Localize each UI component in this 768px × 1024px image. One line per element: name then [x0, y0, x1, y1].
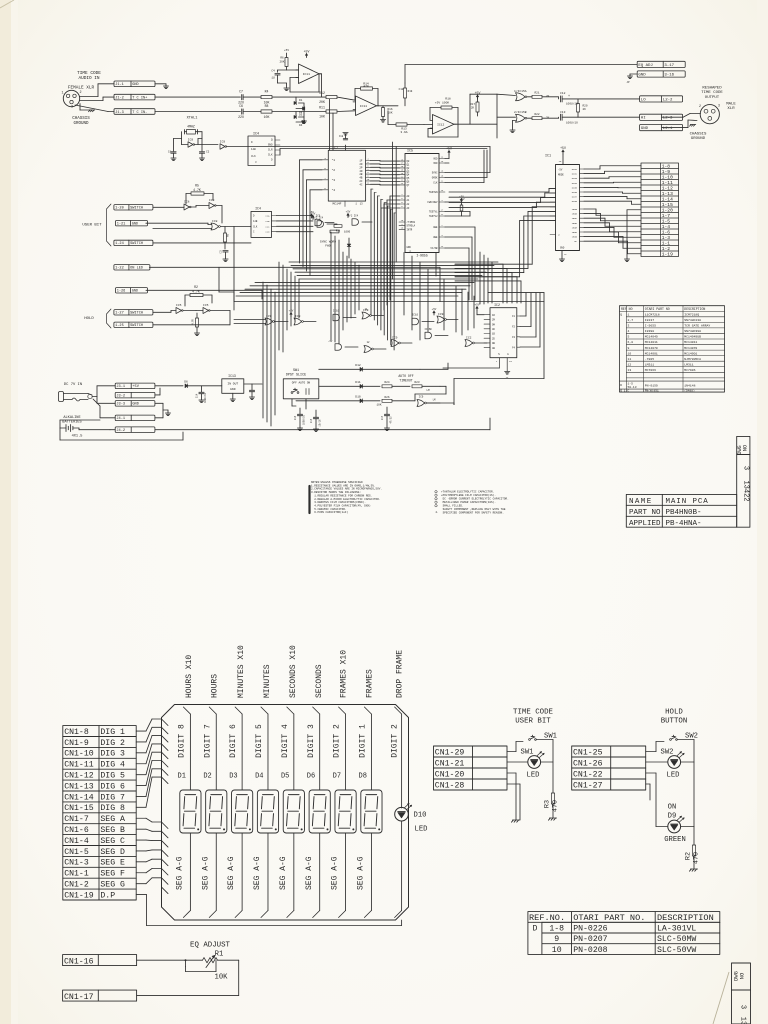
svg-text:1/2 IC4: 1/2 IC4	[348, 215, 359, 218]
diode sync word	[347, 238, 351, 258]
capacitor C1	[168, 151, 176, 161]
svg-text:IC5: IC5	[203, 304, 209, 307]
svg-text:10: 10	[628, 351, 632, 355]
svg-text:SWITCH: SWITCH	[130, 242, 143, 246]
svg-text:LED: LED	[667, 772, 680, 780]
connector female XLR J-IN	[61, 90, 81, 109]
label pin 1-13	[662, 191, 673, 197]
svg-text:TESTV2: TESTV2	[429, 215, 438, 218]
svg-text:+5V: +5V	[560, 146, 566, 150]
label SEG A-G col1	[176, 856, 185, 890]
svg-text:-7805: -7805	[645, 357, 654, 361]
svg-text:C10: C10	[399, 88, 404, 91]
svg-text:IC4: IC4	[255, 207, 261, 211]
inverter IC5 hold B	[196, 304, 230, 313]
column label HOURS X10	[185, 655, 194, 698]
label pin 1-4	[662, 224, 671, 230]
svg-text:GND: GND	[132, 83, 138, 87]
wire bus IC4 outputs	[277, 216, 314, 232]
svg-text:TIMEOUT: TIMEOUT	[399, 378, 412, 382]
diode clamp D3 D4	[294, 112, 305, 128]
component table row 13	[628, 368, 696, 372]
svg-text:NO: NO	[740, 973, 746, 979]
column label HOURS	[211, 674, 220, 698]
svg-text:CN1-11: CN1-11	[64, 761, 94, 770]
svg-text:D1: D1	[299, 99, 303, 102]
svg-text:CLK: CLK	[268, 154, 273, 157]
svg-text:XLR: XLR	[727, 107, 735, 111]
svg-text:GROUND: GROUND	[691, 137, 706, 141]
label DIGIT 7 col2	[203, 724, 212, 758]
label D3	[229, 773, 237, 781]
label CN1-2 SEG G	[64, 880, 125, 889]
label D4	[255, 773, 263, 781]
svg-text:4.7K: 4.7K	[193, 188, 201, 192]
notes block 1	[310, 481, 382, 514]
svg-text:IC6: IC6	[316, 215, 321, 218]
resistor R23	[412, 381, 440, 392]
svg-text:*2: *2	[332, 168, 336, 172]
svg-text:CLK: CLK	[253, 225, 258, 228]
svg-text:SEG A-G: SEG A-G	[201, 856, 210, 890]
svg-text:R23: R23	[414, 381, 419, 384]
connector J1-2 T C IN+	[114, 94, 155, 100]
wire J4-2 long line	[155, 418, 490, 430]
svg-text:IC2: IC2	[466, 337, 472, 340]
gate IC9 mid10	[391, 337, 412, 347]
wire fan digit entries	[162, 719, 169, 784]
svg-text:T C IN+: T C IN+	[132, 96, 147, 100]
connector LO L2-2	[640, 96, 683, 103]
svg-text:VDD: VDD	[433, 162, 438, 165]
component table row 3	[628, 324, 711, 328]
wire bus IC7 to IC5	[371, 161, 400, 185]
label CHASSIS GROUND input	[72, 117, 90, 126]
label pin 1-2	[662, 246, 671, 252]
svg-text:DIG8: DIG8	[572, 200, 578, 203]
wire IC2 F pin risers	[520, 293, 540, 347]
wire 1-24 to IC4	[153, 227, 251, 243]
svg-text:C1: C1	[168, 151, 172, 154]
ic IC2 flip flop	[484, 303, 520, 371]
component table row 1	[620, 312, 699, 316]
svg-text:CN1-13: CN1-13	[64, 782, 94, 791]
label IC1	[545, 155, 551, 159]
wires EQ adjust	[137, 960, 239, 995]
svg-text:1-6: 1-6	[662, 230, 671, 236]
svg-text:+9V: +9V	[459, 198, 464, 201]
svg-text:DIG 5: DIG 5	[100, 771, 125, 780]
svg-text:HOURS: HOURS	[211, 674, 220, 698]
svg-text:SPECIFIED COMPONENT FOR SAFETY: SPECIFIED COMPONENT FOR SAFETY REASON.	[441, 512, 504, 515]
svg-text:+5V: +5V	[432, 308, 437, 311]
wire digit lane 8	[183, 707, 190, 918]
svg-text:SEG A-G: SEG A-G	[279, 856, 288, 890]
svg-text:DIGIT 6: DIGIT 6	[229, 724, 238, 758]
connector stack 1-x table	[641, 163, 679, 257]
svg-text:ICM7218Q: ICM7218Q	[684, 312, 699, 316]
svg-text:1N4148: 1N4148	[684, 383, 695, 387]
label SEG A-G col3	[227, 856, 236, 890]
capacitor C4	[271, 70, 296, 84]
column label DROP FRAME	[395, 650, 404, 698]
capacitor C3 user	[220, 250, 229, 262]
gate IC2 mid11	[465, 337, 487, 347]
svg-text:IC9: IC9	[438, 313, 444, 316]
connector 1-20 SWITCH	[114, 205, 153, 211]
wire TC IN- line	[155, 111, 240, 113]
svg-text:LM: LM	[426, 389, 430, 392]
svg-text:CLR: CLR	[268, 149, 273, 152]
wire J3-2 stub	[155, 388, 160, 395]
connector J3-2	[115, 392, 155, 398]
diode D12	[319, 364, 420, 371]
svg-text:HOLD: HOLD	[84, 317, 94, 321]
svg-text:I-9655: I-9655	[645, 324, 656, 328]
svg-text:4MHZ: 4MHZ	[187, 125, 195, 129]
svg-text:10K: 10K	[319, 115, 325, 119]
svg-text:D1: D1	[178, 773, 186, 781]
svg-text:APPLIED: APPLIED	[629, 520, 661, 528]
label SW1	[544, 733, 557, 741]
gate IC10 mid5	[412, 314, 434, 325]
gate IC9 mid9	[364, 341, 386, 353]
svg-text:DIGIT 4: DIGIT 4	[281, 724, 290, 758]
svg-text:C1B: C1B	[266, 220, 271, 223]
diode clamp D1 D2	[294, 97, 307, 124]
wire digit lane 2	[339, 707, 346, 918]
svg-text:SEG A-G: SEG A-G	[253, 856, 262, 890]
wire CN1 row 12 to display	[136, 850, 161, 851]
label DIGIT 6 col3	[229, 724, 238, 758]
svg-text:PN-0208: PN-0208	[573, 946, 607, 955]
svg-text:GROUND: GROUND	[73, 122, 89, 126]
svg-text:HOLD: HOLD	[665, 709, 683, 717]
svg-text:TIME CODE: TIME CODE	[701, 91, 723, 95]
label EQ ADJUST	[190, 942, 230, 950]
svg-text:MINUTES: MINUTES	[263, 664, 272, 698]
svg-text:CN1-28: CN1-28	[435, 781, 465, 790]
resistor R21 2K	[532, 92, 559, 99]
svg-text:TESTV1: TESTV1	[429, 211, 438, 214]
svg-text:DIG 8: DIG 8	[100, 804, 125, 813]
wire comparator box	[424, 94, 497, 137]
svg-text:C6: C6	[239, 104, 243, 108]
svg-text:2: 2	[79, 91, 81, 95]
title block	[626, 494, 736, 527]
svg-text:TIME CODE: TIME CODE	[513, 709, 553, 717]
resistor R24	[382, 381, 410, 388]
svg-text:GND: GND	[132, 403, 138, 407]
display assembly outline	[162, 705, 409, 921]
svg-text:3: 3	[739, 1005, 747, 1009]
svg-text:CN1-2: CN1-2	[64, 880, 89, 889]
svg-text:STROLA: STROLA	[407, 225, 416, 228]
label pin 1-1	[662, 241, 671, 247]
component table row 5	[628, 335, 702, 339]
svg-text:C1A: C1A	[266, 215, 271, 218]
resistor R17 2K pullup	[470, 91, 516, 138]
svg-text:D8: D8	[359, 773, 367, 781]
svg-text:IC9: IC9	[188, 139, 194, 142]
svg-text:TCR GATE ARRAY: TCR GATE ARRAY	[684, 324, 710, 328]
wires hold block	[646, 740, 694, 846]
resistor R16 10K to ground	[380, 106, 392, 122]
svg-text:10K: 10K	[376, 404, 381, 407]
wire bus IC1 to IC5 links	[449, 188, 556, 276]
svg-text:3: 3	[71, 106, 73, 110]
svg-text:PN(W)891: PN(W)891	[645, 389, 659, 393]
svg-text:SEGA: SEGA	[572, 208, 578, 211]
svg-text:PB4HN0B-: PB4HN0B-	[666, 509, 702, 517]
battery B1	[60, 425, 82, 439]
ic IC7 counter	[322, 147, 371, 207]
wire bus long midline	[234, 243, 544, 302]
svg-text:20K: 20K	[319, 100, 325, 104]
wire CN1 row 14 to display	[136, 869, 161, 873]
svg-text:R8: R8	[265, 104, 269, 108]
wire fan segment entries	[162, 822, 169, 894]
svg-text:<: <	[558, 233, 560, 237]
connector male XLR output	[699, 104, 720, 124]
brace hold	[107, 309, 112, 328]
ic IC4 shift register	[251, 207, 277, 238]
svg-text:SEGG: SEGG	[572, 236, 578, 239]
svg-text:NJM7805FA: NJM7805FA	[684, 357, 701, 361]
label CN1-19 D.P	[64, 891, 115, 900]
resistor R26 10K	[376, 396, 415, 407]
svg-text:CN1-17: CN1-17	[64, 993, 94, 1002]
LED user bit	[528, 752, 544, 769]
svg-text:IC10: IC10	[412, 314, 419, 317]
svg-text:CN1-4: CN1-4	[64, 837, 89, 846]
capacitor C15	[310, 410, 322, 432]
svg-text:T C IN-: T C IN-	[132, 111, 147, 115]
connector J4-2	[115, 427, 155, 433]
svg-text:3-16: 3-16	[664, 73, 674, 77]
label D6	[307, 773, 315, 781]
svg-text:CN1-8: CN1-8	[64, 728, 89, 737]
svg-text:DIG 7: DIG 7	[100, 793, 125, 802]
svg-text:GND: GND	[268, 144, 273, 147]
resistor R14 470 feedback	[355, 83, 378, 106]
label MALE XLR	[726, 103, 736, 112]
resistor R4 10K	[261, 90, 326, 105]
connector table CN1 digit/segment stack	[63, 726, 136, 900]
svg-text:1-22: 1-22	[115, 267, 124, 271]
svg-text:C2: C2	[206, 151, 210, 154]
svg-text:R6: R6	[280, 57, 284, 60]
svg-text:+5V: +5V	[474, 303, 479, 306]
label XTAL1 4MHZ	[187, 117, 198, 129]
LED D10	[395, 804, 412, 822]
label ON D9	[668, 804, 677, 821]
gate IC9 mid1	[234, 315, 288, 325]
column label SECONDS	[315, 664, 324, 698]
label CN1-21	[435, 759, 465, 768]
op-amp IC12 comparator	[430, 115, 457, 135]
label SEG A-G col6	[305, 856, 314, 890]
label D8	[359, 773, 367, 781]
gate IC8 mid2	[289, 309, 316, 325]
svg-text:DIG 6: DIG 6	[100, 782, 125, 791]
svg-text:CLK: CLK	[251, 155, 256, 158]
component table diode rows	[620, 382, 695, 392]
parts table header text	[529, 913, 714, 923]
svg-text:D2: D2	[203, 773, 211, 781]
power +5V IC5	[445, 146, 452, 163]
svg-text:1-3: 1-3	[662, 235, 671, 241]
svg-text:Q 1 C: Q 1 C	[620, 390, 629, 393]
svg-text:D10: D10	[414, 812, 427, 820]
svg-text:LED: LED	[415, 826, 428, 834]
inverter IC9 buffer	[220, 141, 248, 150]
svg-text:C14: C14	[196, 393, 199, 398]
label CN1-4 SEG C	[64, 837, 125, 846]
svg-text:IC11: IC11	[303, 73, 310, 76]
wire TC in to IC7	[330, 99, 334, 150]
label CN1-29	[435, 748, 465, 757]
svg-text:10/10: 10/10	[319, 419, 322, 427]
svg-text:D: D	[532, 925, 537, 934]
svg-text:VDD: VDD	[433, 158, 438, 161]
svg-text:470: 470	[363, 85, 369, 88]
label D2	[203, 773, 211, 781]
wire digit lane 1	[364, 707, 371, 918]
connector table CN1-25/26/22/27	[572, 746, 646, 790]
label DIGIT 5 col4	[255, 724, 264, 758]
label pin 1-15	[662, 202, 673, 208]
wire drop-frame lane	[395, 707, 402, 918]
label D5	[281, 773, 289, 781]
capacitor C13 100U/10	[559, 111, 640, 124]
nor gate IC8 user	[146, 220, 234, 230]
wire auto off to gate	[415, 386, 454, 404]
svg-text:IC8: IC8	[212, 220, 218, 223]
resistor R13 3.6A	[388, 111, 424, 134]
resistor R3	[544, 793, 560, 818]
svg-text:3.6A: 3.6A	[400, 131, 407, 134]
svg-text:2/IC15B: 2/IC15B	[514, 110, 527, 114]
svg-text:D7: D7	[333, 773, 341, 781]
svg-text:*3: *3	[332, 178, 336, 182]
svg-text:1-10: 1-10	[662, 175, 673, 181]
svg-text:D12: D12	[355, 364, 361, 367]
wire crystal loop	[174, 132, 203, 151]
svg-text:100U/10: 100U/10	[303, 414, 306, 425]
svg-text:CN1-10: CN1-10	[64, 750, 94, 759]
svg-text:IC8: IC8	[295, 315, 301, 318]
LED hold	[668, 752, 684, 769]
wire CN1 row 10 to display	[136, 829, 161, 831]
connector DC barrel jack	[59, 392, 93, 402]
svg-text:R6: R6	[227, 233, 230, 237]
gate IC10 mid3	[333, 310, 356, 321]
label DIGIT 2 col9	[390, 724, 399, 758]
component table row 4	[628, 329, 702, 333]
wire bus IC1 to stack	[584, 166, 641, 254]
svg-text:*4: *4	[332, 188, 336, 192]
component table row 12	[628, 362, 694, 366]
label pin 1-5	[662, 219, 671, 225]
svg-text:1/IC15A: 1/IC15A	[514, 89, 527, 93]
capacitor C14 1000/10	[196, 386, 208, 403]
svg-text:J1-3: J1-3	[115, 111, 124, 115]
svg-text:CN1-6: CN1-6	[64, 826, 89, 835]
svg-text:GND: GND	[641, 127, 649, 131]
svg-text:GND: GND	[230, 388, 236, 391]
svg-text:SEG A-G: SEG A-G	[331, 856, 340, 890]
svg-text:IC12: IC12	[437, 123, 444, 126]
svg-text:+5V: +5V	[346, 210, 351, 213]
connector 1-22 ON LED	[114, 265, 150, 271]
svg-text:6.PCON CAPACITOR(1uF): 6.PCON CAPACITOR(1uF)	[311, 510, 348, 514]
svg-text:IC8: IC8	[209, 199, 215, 202]
svg-text:+: +	[568, 95, 570, 99]
svg-text:SEGC: SEGC	[572, 217, 578, 220]
svg-text:L2-2: L2-2	[663, 98, 673, 102]
svg-text:SWITCH: SWITCH	[130, 312, 143, 316]
svg-text:D: D	[620, 384, 622, 387]
svg-text:EQ ADJUST: EQ ADJUST	[190, 942, 230, 950]
gate IC2 mid8	[328, 340, 358, 350]
label CHASSIS GROUND output	[690, 133, 707, 142]
svg-text:D9: D9	[668, 813, 677, 821]
wire bus IC7 inputs	[300, 160, 323, 275]
svg-text:DIG7: DIG7	[572, 196, 578, 199]
svg-text:DIG5: DIG5	[572, 186, 578, 189]
label pin 1-11	[662, 180, 673, 186]
svg-text:20K: 20K	[279, 61, 284, 64]
gate IC4 sync A	[311, 212, 337, 227]
capacitor C17	[381, 407, 393, 431]
label CN1-11 DIG 4	[64, 761, 125, 770]
wire digit lane 3	[313, 707, 320, 918]
svg-text:SEGE: SEGE	[572, 226, 578, 229]
label DIGIT 8 col1	[178, 724, 187, 758]
component table	[620, 306, 725, 392]
capacitor C19 regulator out	[249, 384, 262, 400]
svg-text:SN74HC138: SN74HC138	[684, 318, 701, 322]
svg-text:14B: 14B	[251, 148, 256, 151]
svg-text:1000/10: 1000/10	[204, 392, 207, 403]
wire IC2 S pin left	[443, 367, 499, 369]
resistor R29 1000	[330, 230, 351, 233]
connector EQ ADJ 3-17	[637, 61, 685, 68]
svg-text:SEG A-G: SEG A-G	[227, 856, 236, 890]
label CN1-8 DIG 1	[64, 728, 125, 737]
svg-text:LM311: LM311	[684, 362, 693, 366]
svg-text:1 13: 1 13	[355, 203, 363, 206]
svg-text:PN-0159: PN-0159	[645, 383, 658, 387]
label CN1-6 SEG B	[64, 826, 125, 835]
op-amp IC11 first stage	[296, 64, 322, 84]
wire bus staircase to IC2	[455, 264, 521, 303]
wires user bit block	[507, 740, 553, 821]
connector HI L2-3	[640, 114, 683, 121]
power +5V opamp1	[304, 49, 310, 57]
svg-text:SEG B: SEG B	[100, 826, 125, 835]
power +9V FWD/REV	[445, 198, 470, 216]
svg-text:IN OUT: IN OUT	[227, 383, 238, 386]
svg-text:IC5: IC5	[407, 150, 413, 154]
svg-text:REF.NO.: REF.NO.	[529, 913, 565, 923]
svg-text:10K: 10K	[264, 115, 270, 119]
wire CN1 row 13 to display	[136, 859, 161, 862]
wire CN1 row 9 to display	[136, 818, 161, 822]
svg-text:R26: R26	[384, 396, 389, 399]
svg-text:+5V: +5V	[304, 49, 310, 53]
